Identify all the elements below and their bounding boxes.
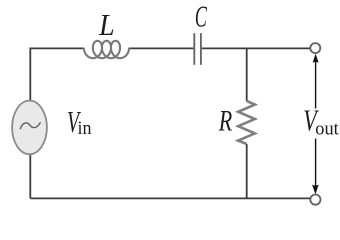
- svg-text:L: L: [98, 9, 115, 42]
- svg-text:in: in: [78, 118, 92, 140]
- svg-text:out: out: [315, 118, 339, 139]
- svg-text:C: C: [195, 1, 207, 34]
- svg-text:R: R: [218, 105, 232, 138]
